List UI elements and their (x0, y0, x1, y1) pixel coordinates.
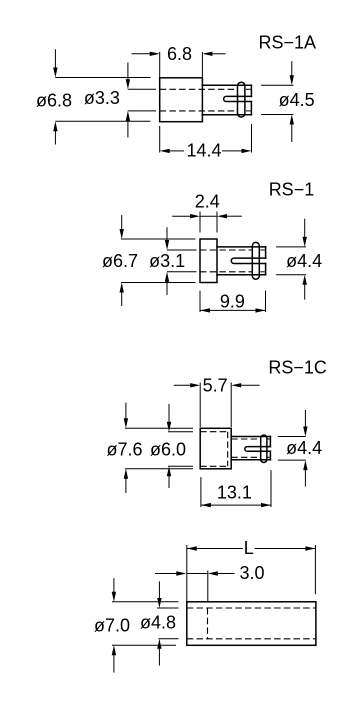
dimension 3.0 spacer (155, 563, 265, 602)
dimension diameter 6.0 RS-1C (150, 404, 193, 488)
svg-text:RS−1A: RS−1A (259, 33, 317, 53)
svg-text:9.9: 9.9 (220, 291, 245, 311)
hidden recess lines RS-1C (200, 432, 228, 467)
dimension 14.4 bottom RS-1A (160, 124, 252, 161)
spigot cylinder RS-1A (202, 85, 251, 115)
svg-text:ø3.1: ø3.1 (149, 251, 185, 271)
svg-text:6.8: 6.8 (167, 44, 192, 64)
svg-text:14.4: 14.4 (186, 141, 221, 161)
dimension 9.9 bottom RS-1 (200, 291, 266, 313)
spigot cylinder RS-1 (217, 247, 266, 275)
svg-text:ø7.6: ø7.6 (106, 440, 142, 460)
svg-text:5.7: 5.7 (203, 376, 228, 396)
svg-text:ø3.3: ø3.3 (84, 88, 120, 108)
label RS-1A (259, 33, 317, 53)
dimension L top spacer (187, 538, 316, 602)
dimension 2.4 top RS-1 (172, 192, 242, 233)
svg-text:2.4: 2.4 (195, 192, 220, 212)
dimension diameter 4.4 right RS-1 (276, 219, 322, 300)
svg-text:RS−1C: RS−1C (268, 358, 327, 378)
body RS-1C block (200, 428, 231, 469)
hidden hole lines spacer (187, 608, 316, 639)
slot RS-1 (231, 258, 265, 263)
body RS-1 flange (200, 239, 217, 283)
svg-text:ø6.0: ø6.0 (150, 440, 186, 460)
svg-text:ø4.8: ø4.8 (140, 613, 176, 633)
dimension diameter 7.0 left spacer (94, 578, 179, 672)
barb RS-1A (238, 82, 245, 117)
svg-text:ø7.0: ø7.0 (94, 616, 130, 636)
svg-text:L: L (244, 538, 254, 558)
body spacer tube (187, 602, 316, 646)
svg-text:13.1: 13.1 (217, 483, 252, 503)
dimension diameter 3.3 RS-1A (84, 62, 156, 137)
barb RS-1 (252, 242, 259, 279)
hidden hole lines RS-1 (200, 250, 265, 272)
dimension diameter 7.6 left RS-1C (106, 403, 193, 493)
dimension diameter 4.5 right RS-1A (261, 61, 315, 142)
hidden counterbore line spacer (207, 608, 209, 639)
dimension diameter 3.1 RS-1 (149, 227, 196, 295)
svg-text:ø4.5: ø4.5 (279, 90, 315, 110)
svg-text:RS−1: RS−1 (269, 180, 315, 200)
body RS-1A flange block (160, 78, 203, 122)
dimension 13.1 bottom RS-1C (201, 470, 271, 507)
dimension diameter 6.7 left RS-1 (102, 215, 196, 306)
svg-text:ø4.4: ø4.4 (286, 438, 322, 458)
dimension 6.8 top RS-1A (132, 44, 226, 78)
slot RS-1A (224, 96, 252, 101)
dimension diameter 4.8 spacer (140, 581, 179, 665)
slot RS-1C (245, 447, 271, 452)
dimension diameter 4.4 right RS-1C (278, 410, 322, 487)
spigot cylinder RS-1C (231, 437, 270, 460)
svg-text:ø4.4: ø4.4 (286, 251, 322, 271)
label RS-1C (268, 358, 327, 378)
dimension 5.7 top RS-1C (174, 376, 260, 428)
svg-text:ø6.7: ø6.7 (102, 251, 138, 271)
label RS-1 (269, 180, 315, 200)
hidden hole lines RS-1C (231, 439, 270, 457)
dimension diameter 6.8 left RS-1A (36, 49, 151, 144)
barb RS-1C (261, 435, 267, 462)
svg-text:ø6.8: ø6.8 (36, 90, 72, 110)
svg-text:3.0: 3.0 (240, 563, 265, 583)
hidden hole lines RS-1A (160, 89, 251, 111)
